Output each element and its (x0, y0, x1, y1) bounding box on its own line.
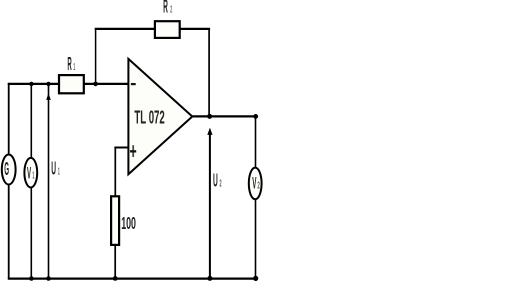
resistor R2 (155, 21, 180, 38)
svg-text:1: 1 (58, 167, 60, 178)
label R1 (67, 53, 75, 74)
svg-text:2: 2 (170, 5, 172, 16)
op-amp plus input mark (130, 145, 136, 157)
op-amp minus input mark (131, 83, 136, 85)
wire V2 branch upper (255, 116, 257, 168)
op-amp U1 TL072 (128, 59, 192, 174)
node input-U1 junction (46, 82, 50, 86)
label U2 (213, 169, 222, 190)
svg-text:V: V (27, 163, 31, 182)
resistor 100 (111, 196, 119, 245)
generator G (2, 155, 16, 185)
resistor R1 (59, 75, 84, 93)
wire bottom ground (8, 278, 257, 280)
node output right end (253, 114, 258, 119)
svg-text:R: R (163, 0, 168, 16)
wire input horizontal (8, 83, 129, 85)
label R2 (163, 0, 172, 16)
svg-text:100: 100 (121, 213, 136, 233)
wire feedback right leg (208, 29, 210, 117)
wire left border vertical upper (8, 83, 10, 155)
node output junction (207, 114, 212, 119)
node bottom U1 junction (46, 276, 51, 281)
svg-text:1: 1 (73, 62, 75, 73)
wire V2 branch lower (255, 199, 257, 279)
wire resistor 100 to ground (114, 246, 116, 279)
wire V1 branch upper (30, 84, 32, 159)
svg-text:1: 1 (32, 171, 34, 182)
wire noninverting input horizontal (114, 147, 128, 149)
arrow U1 vertical line (48, 85, 50, 279)
svg-text:2: 2 (220, 178, 222, 189)
svg-text:U: U (51, 158, 56, 179)
svg-text:V: V (252, 174, 256, 193)
label U1 (51, 158, 60, 179)
svg-text:TL 072: TL 072 (134, 107, 164, 128)
svg-text:R: R (67, 53, 72, 74)
wire output horizontal (192, 115, 256, 117)
node bottom V2 junction (253, 276, 258, 281)
arrow U2 head (207, 128, 212, 135)
arrow U1 head (46, 93, 51, 100)
wire V1 branch lower (30, 187, 32, 279)
wire left border vertical lower (8, 184, 10, 278)
node feedback junction (93, 82, 98, 87)
wire noninverting down to resistor (114, 147, 116, 197)
node input-V1 junction (29, 82, 33, 86)
node 100-bottom junction (113, 276, 118, 281)
arrow U2 vertical line (209, 135, 211, 279)
node bottom U2 junction (207, 276, 212, 281)
wire feedback left leg (95, 28, 97, 84)
svg-text:U: U (213, 169, 218, 190)
node bottom V1 junction (29, 276, 34, 281)
voltmeter V1 (24, 158, 37, 188)
voltmeter V2 (249, 168, 262, 200)
svg-text:G: G (4, 158, 9, 179)
svg-text:2: 2 (257, 181, 260, 192)
wire feedback top (95, 28, 210, 30)
